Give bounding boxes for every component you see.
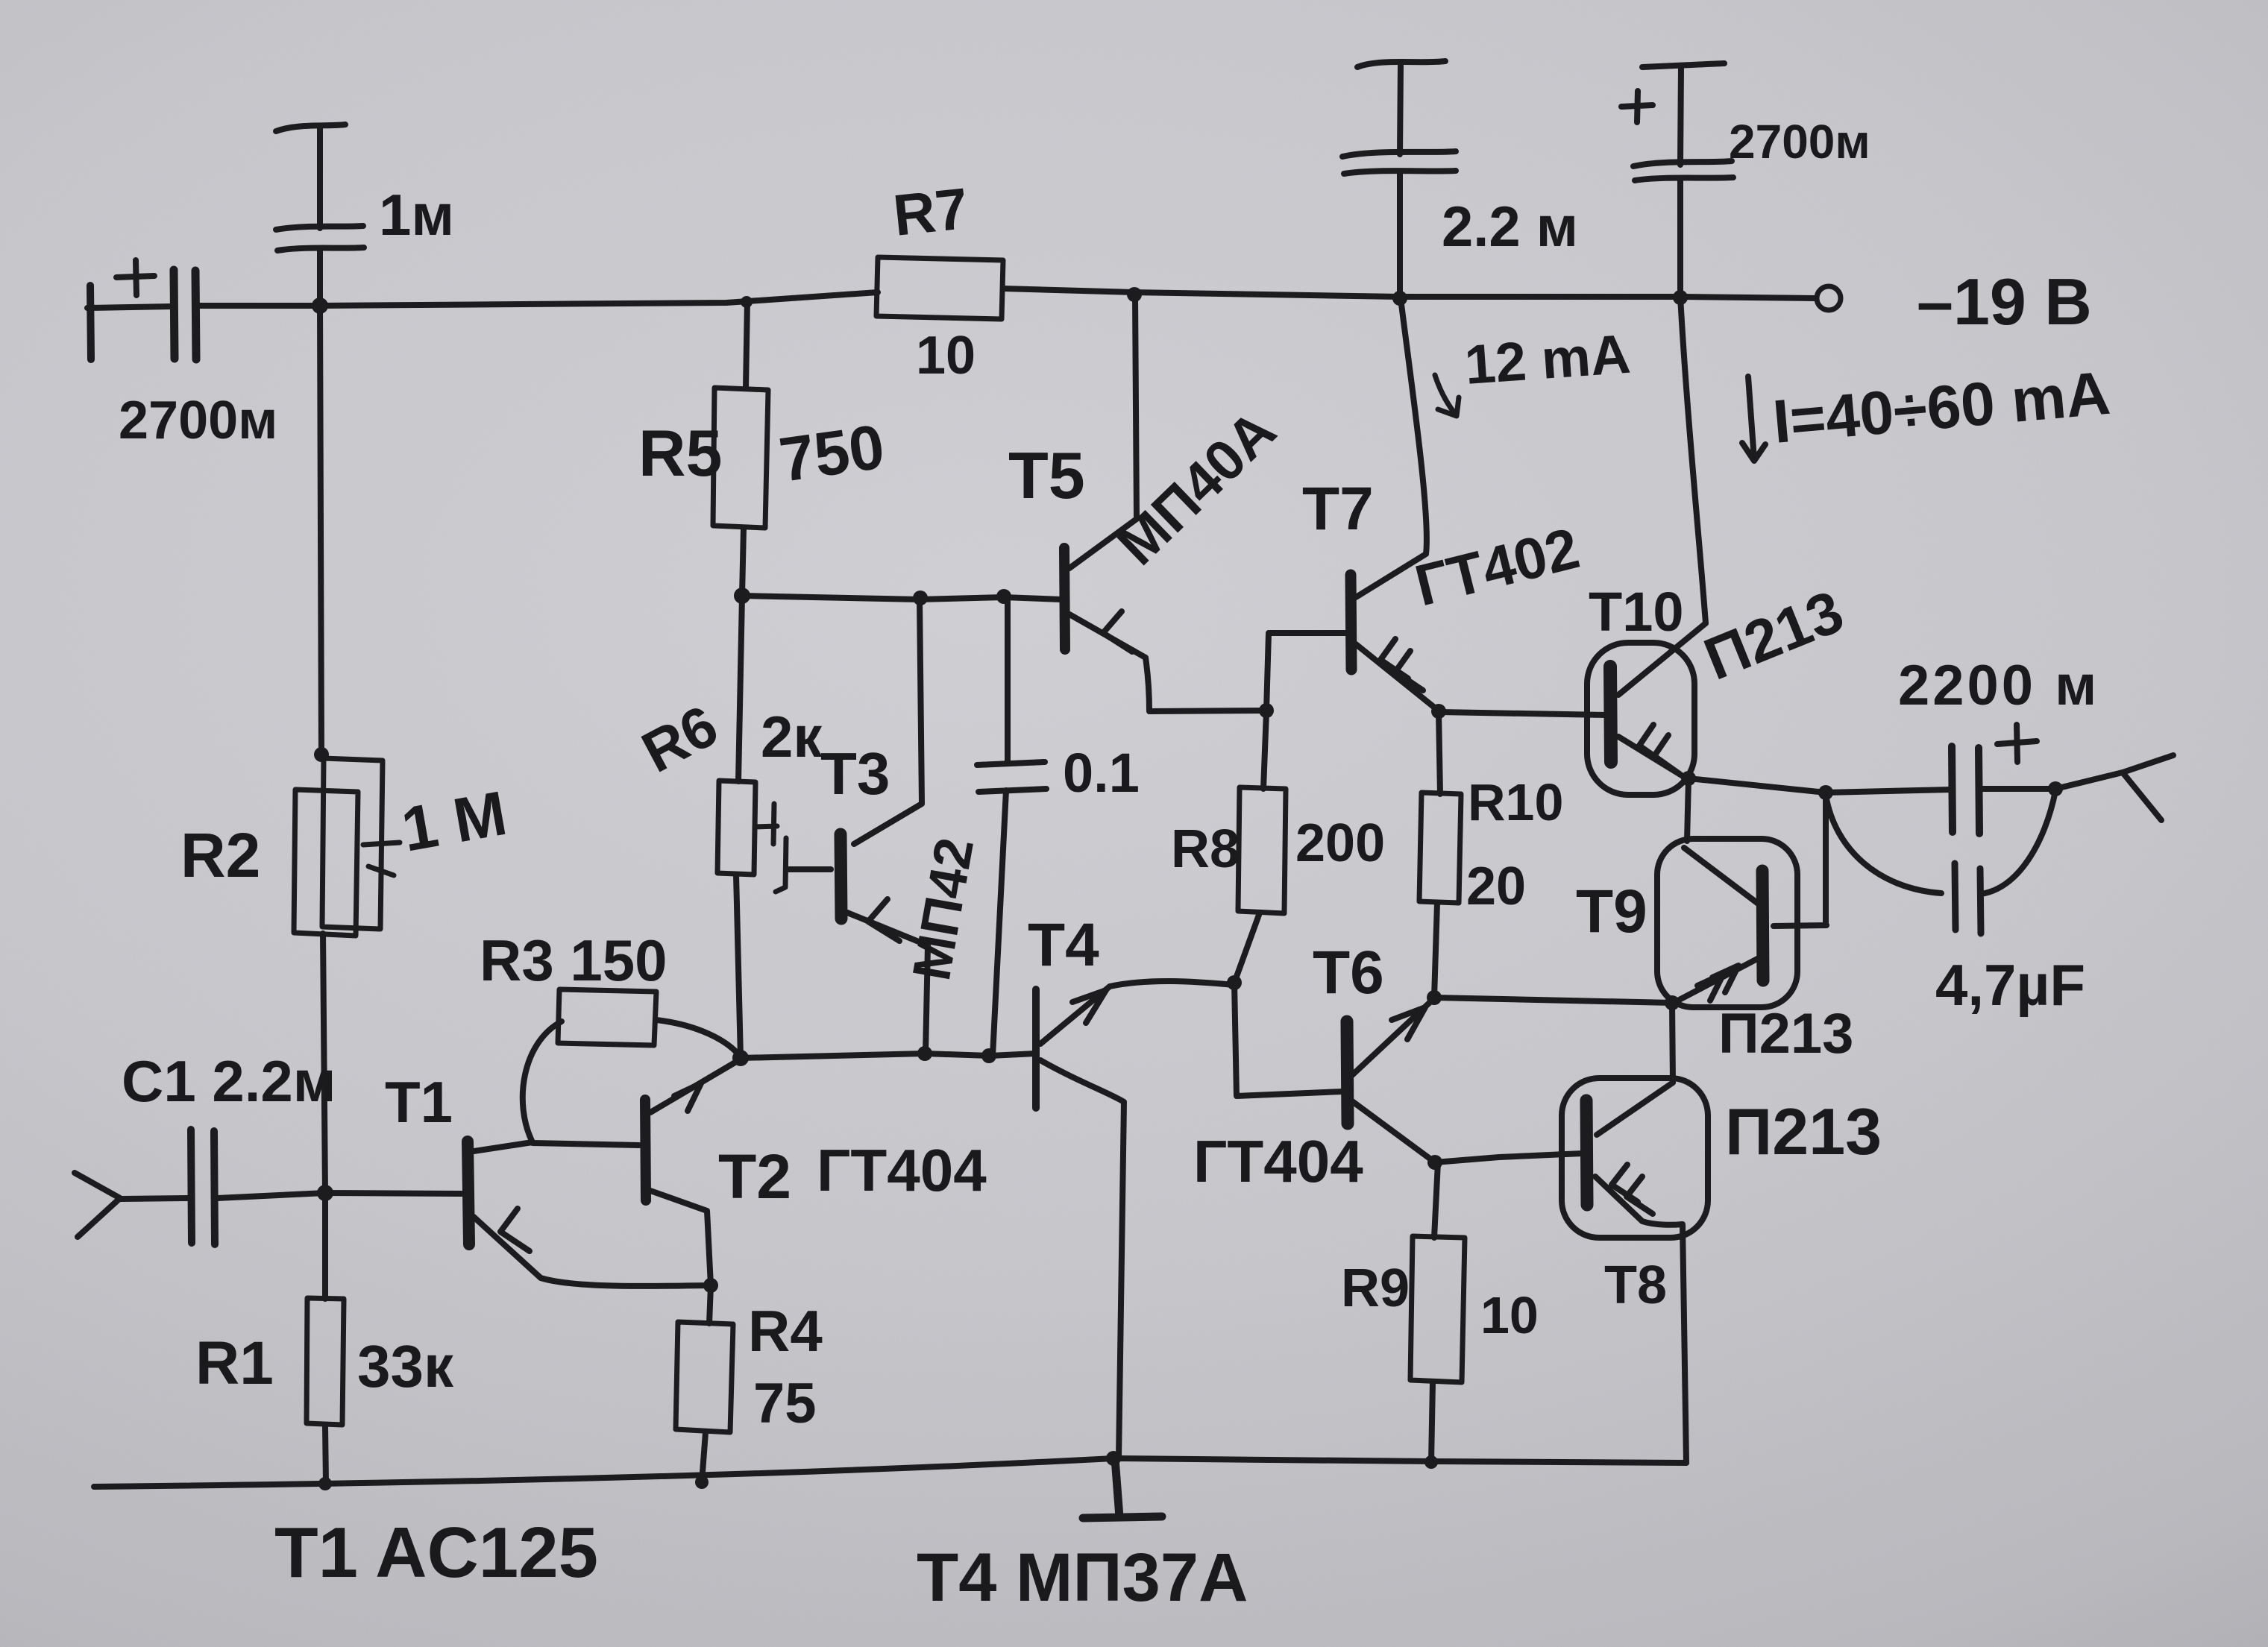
svg-text:0.1: 0.1 — [1063, 742, 1140, 804]
svg-text:R9: R9 — [1341, 1259, 1410, 1318]
svg-text:T10: T10 — [1589, 581, 1684, 643]
svg-text:10: 10 — [1480, 1286, 1539, 1344]
svg-text:П213: П213 — [1695, 578, 1852, 693]
svg-text:2200 м: 2200 м — [1898, 654, 2099, 717]
svg-text:ГТ404: ГТ404 — [1193, 1128, 1363, 1194]
svg-text:R3 150: R3 150 — [480, 928, 667, 993]
svg-text:1м: 1м — [379, 182, 454, 248]
svg-text:R7: R7 — [890, 175, 971, 248]
svg-text:I=40÷60 mA: I=40÷60 mA — [1771, 359, 2113, 456]
svg-text:2.2 м: 2.2 м — [1442, 195, 1578, 259]
svg-text:R4: R4 — [748, 1298, 823, 1364]
svg-text:T7: T7 — [1302, 475, 1374, 543]
svg-text:R6: R6 — [632, 692, 728, 785]
svg-text:ГТ404: ГТ404 — [817, 1137, 987, 1203]
svg-text:П213: П213 — [1725, 1095, 1882, 1168]
svg-text:R8: R8 — [1171, 819, 1240, 879]
svg-text:R2: R2 — [180, 820, 260, 890]
svg-text:12 mA: 12 mA — [1463, 323, 1632, 396]
svg-text:R1: R1 — [195, 1329, 274, 1397]
svg-text:R10: R10 — [1468, 773, 1563, 831]
svg-text:R5: R5 — [638, 416, 723, 490]
svg-text:2к: 2к — [761, 704, 823, 769]
svg-text:МП42: МП42 — [902, 834, 985, 985]
svg-text:4,7µF: 4,7µF — [1935, 952, 2085, 1018]
svg-text:1 M: 1 M — [397, 778, 512, 865]
svg-text:T1: T1 — [385, 1069, 453, 1135]
svg-text:T2: T2 — [718, 1141, 791, 1212]
svg-text:T6: T6 — [1313, 939, 1384, 1007]
svg-text:C1 2.2м: C1 2.2м — [122, 1048, 336, 1114]
svg-text:T4: T4 — [1028, 911, 1099, 979]
svg-text:33к: 33к — [357, 1333, 454, 1399]
svg-text:200: 200 — [1295, 813, 1385, 873]
svg-text:T4 МП37А: T4 МП37А — [917, 1540, 1248, 1616]
svg-text:T3: T3 — [820, 740, 890, 807]
svg-text:T8: T8 — [1604, 1256, 1667, 1315]
svg-text:75: 75 — [753, 1372, 817, 1435]
svg-text:20: 20 — [1466, 857, 1526, 916]
svg-text:ГТ402: ГТ402 — [1409, 514, 1586, 618]
svg-text:750: 750 — [775, 411, 888, 495]
svg-text:2700м: 2700м — [119, 391, 277, 450]
svg-text:T9: T9 — [1576, 878, 1647, 945]
svg-text:–19 B: –19 B — [1917, 265, 2092, 338]
svg-text:10: 10 — [916, 326, 976, 385]
svg-text:T5: T5 — [1008, 438, 1085, 512]
svg-text:2700м: 2700м — [1729, 115, 1870, 169]
svg-text:П213: П213 — [1718, 1002, 1853, 1065]
svg-text:T1 AC125: T1 AC125 — [274, 1513, 598, 1593]
